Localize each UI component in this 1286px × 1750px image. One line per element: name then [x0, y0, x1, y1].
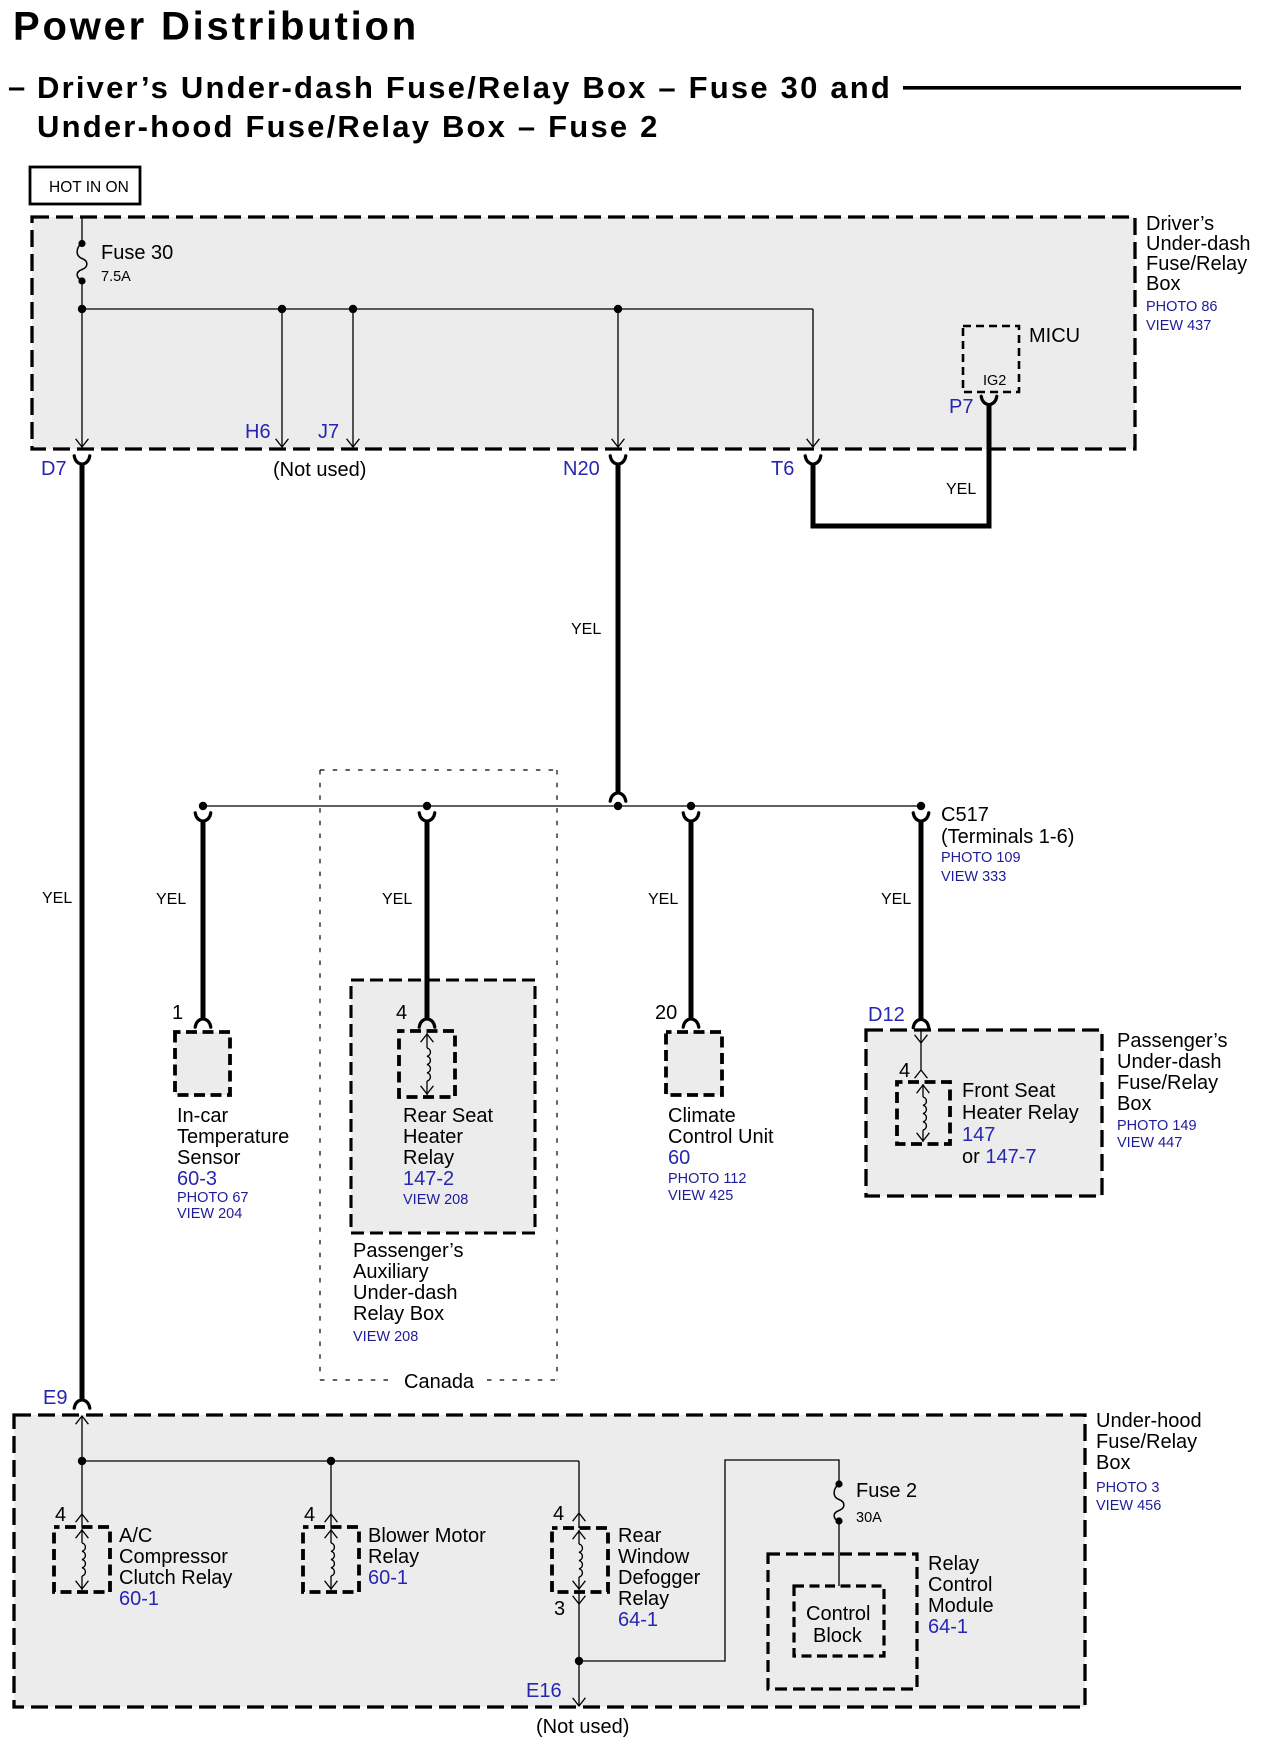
svg-text:Under-hood Fuse/Relay Box – Fu: Under-hood Fuse/Relay Box – Fuse 2 — [37, 109, 660, 144]
svg-text:(Terminals 1-6): (Terminals 1-6) — [941, 826, 1074, 848]
svg-text:Heater Relay: Heater Relay — [962, 1102, 1079, 1124]
svg-text:Rear Seat: Rear Seat — [403, 1105, 493, 1127]
svg-text:1: 1 — [172, 1002, 183, 1024]
svg-text:Under-dash: Under-dash — [1146, 233, 1251, 255]
svg-text:4: 4 — [899, 1060, 910, 1082]
svg-text:Box: Box — [1117, 1093, 1151, 1115]
svg-text:60-1: 60-1 — [368, 1567, 408, 1589]
svg-text:Passenger’s: Passenger’s — [353, 1240, 463, 1262]
svg-text:C517: C517 — [941, 804, 989, 826]
svg-text:(Not used): (Not used) — [536, 1716, 629, 1738]
svg-text:Relay: Relay — [928, 1553, 979, 1575]
svg-text:In-car: In-car — [177, 1105, 228, 1127]
svg-text:PHOTO 112: PHOTO 112 — [668, 1171, 746, 1187]
svg-text:147-2: 147-2 — [403, 1168, 454, 1190]
svg-text:H6: H6 — [245, 421, 271, 443]
svg-text:Fuse/Relay: Fuse/Relay — [1096, 1431, 1197, 1453]
svg-text:J7: J7 — [318, 421, 339, 443]
svg-text:147: 147 — [962, 1124, 995, 1146]
svg-text:YEL: YEL — [648, 891, 678, 908]
svg-text:60-1: 60-1 — [119, 1588, 159, 1610]
svg-text:Control Unit: Control Unit — [668, 1126, 774, 1148]
svg-text:A/C: A/C — [119, 1525, 152, 1547]
svg-text:T6: T6 — [771, 458, 794, 480]
svg-text:–: – — [8, 69, 25, 104]
svg-text:4: 4 — [304, 1504, 315, 1526]
svg-text:Blower Motor: Blower Motor — [368, 1525, 486, 1547]
svg-text:Fuse/Relay: Fuse/Relay — [1146, 253, 1247, 275]
svg-text:Relay: Relay — [618, 1588, 669, 1610]
svg-text:VIEW 208: VIEW 208 — [353, 1329, 418, 1345]
svg-text:Heater: Heater — [403, 1126, 463, 1148]
svg-text:N20: N20 — [563, 458, 600, 480]
svg-text:Under-dash: Under-dash — [1117, 1051, 1222, 1073]
svg-text:YEL: YEL — [42, 890, 72, 907]
svg-text:YEL: YEL — [156, 891, 186, 908]
svg-text:Front Seat: Front Seat — [962, 1080, 1056, 1102]
svg-text:E9: E9 — [43, 1387, 67, 1409]
svg-text:Module: Module — [928, 1595, 994, 1617]
svg-text:Rear: Rear — [618, 1525, 662, 1547]
svg-text:7.5A: 7.5A — [101, 269, 131, 285]
svg-text:60: 60 — [668, 1147, 690, 1169]
svg-text:60-3: 60-3 — [177, 1168, 217, 1190]
svg-text:E16: E16 — [526, 1680, 562, 1702]
svg-text:Passenger’s: Passenger’s — [1117, 1030, 1227, 1052]
svg-text:Fuse 30: Fuse 30 — [101, 242, 173, 264]
svg-text:Box: Box — [1146, 273, 1180, 295]
svg-text:Defogger: Defogger — [618, 1567, 701, 1589]
svg-text:Power Distribution: Power Distribution — [13, 5, 419, 49]
svg-text:D12: D12 — [868, 1004, 905, 1026]
svg-text:Window: Window — [618, 1546, 690, 1568]
svg-text:VIEW 447: VIEW 447 — [1117, 1135, 1182, 1151]
svg-text:4: 4 — [396, 1002, 407, 1024]
svg-text:Control: Control — [928, 1574, 992, 1596]
svg-text:YEL: YEL — [382, 891, 412, 908]
svg-text:IG2: IG2 — [983, 373, 1006, 389]
svg-text:Relay: Relay — [403, 1147, 454, 1169]
svg-text:Sensor: Sensor — [177, 1147, 241, 1169]
svg-text:30A: 30A — [856, 1510, 882, 1526]
svg-text:Fuse 2: Fuse 2 — [856, 1480, 917, 1502]
svg-text:64-1: 64-1 — [928, 1616, 968, 1638]
svg-text:YEL: YEL — [946, 481, 976, 498]
svg-text:(Not used): (Not used) — [273, 459, 366, 481]
svg-text:VIEW 425: VIEW 425 — [668, 1188, 733, 1204]
svg-text:PHOTO 67: PHOTO 67 — [177, 1190, 248, 1206]
svg-text:64-1: 64-1 — [618, 1609, 658, 1631]
svg-text:Climate: Climate — [668, 1105, 736, 1127]
svg-text:Block: Block — [813, 1625, 863, 1647]
svg-text:YEL: YEL — [881, 891, 911, 908]
svg-text:VIEW 204: VIEW 204 — [177, 1206, 242, 1222]
svg-text:or 147-7: or 147-7 — [962, 1146, 1037, 1168]
svg-text:Driver’s: Driver’s — [1146, 213, 1214, 235]
svg-text:PHOTO 3: PHOTO 3 — [1096, 1480, 1159, 1496]
svg-text:VIEW 208: VIEW 208 — [403, 1192, 468, 1208]
svg-text:VIEW 456: VIEW 456 — [1096, 1498, 1161, 1514]
svg-text:VIEW 437: VIEW 437 — [1146, 318, 1211, 334]
svg-text:PHOTO 86: PHOTO 86 — [1146, 299, 1217, 315]
svg-text:D7: D7 — [41, 458, 67, 480]
svg-text:Canada: Canada — [404, 1371, 475, 1393]
svg-text:3: 3 — [554, 1598, 565, 1620]
svg-text:4: 4 — [553, 1503, 564, 1525]
svg-text:Temperature: Temperature — [177, 1126, 289, 1148]
svg-text:Box: Box — [1096, 1452, 1130, 1474]
svg-text:20: 20 — [655, 1002, 677, 1024]
svg-text:Clutch Relay: Clutch Relay — [119, 1567, 232, 1589]
svg-text:VIEW 333: VIEW 333 — [941, 869, 1006, 885]
svg-text:PHOTO 109: PHOTO 109 — [941, 850, 1021, 866]
svg-text:Driver’s Under-dash Fuse/Relay: Driver’s Under-dash Fuse/Relay Box – Fus… — [37, 70, 892, 105]
svg-text:P7: P7 — [949, 396, 973, 418]
svg-text:MICU: MICU — [1029, 325, 1080, 347]
svg-text:Fuse/Relay: Fuse/Relay — [1117, 1072, 1218, 1094]
svg-text:Under-dash: Under-dash — [353, 1282, 458, 1304]
svg-text:HOT IN ON: HOT IN ON — [49, 179, 129, 196]
svg-text:Compressor: Compressor — [119, 1546, 228, 1568]
svg-text:Under-hood: Under-hood — [1096, 1410, 1202, 1432]
svg-text:Auxiliary: Auxiliary — [353, 1261, 429, 1283]
svg-text:Control: Control — [806, 1603, 870, 1625]
svg-text:Relay Box: Relay Box — [353, 1303, 444, 1325]
svg-text:Relay: Relay — [368, 1546, 419, 1568]
svg-text:4: 4 — [55, 1504, 66, 1526]
svg-text:PHOTO 149: PHOTO 149 — [1117, 1118, 1197, 1134]
svg-text:YEL: YEL — [571, 621, 601, 638]
